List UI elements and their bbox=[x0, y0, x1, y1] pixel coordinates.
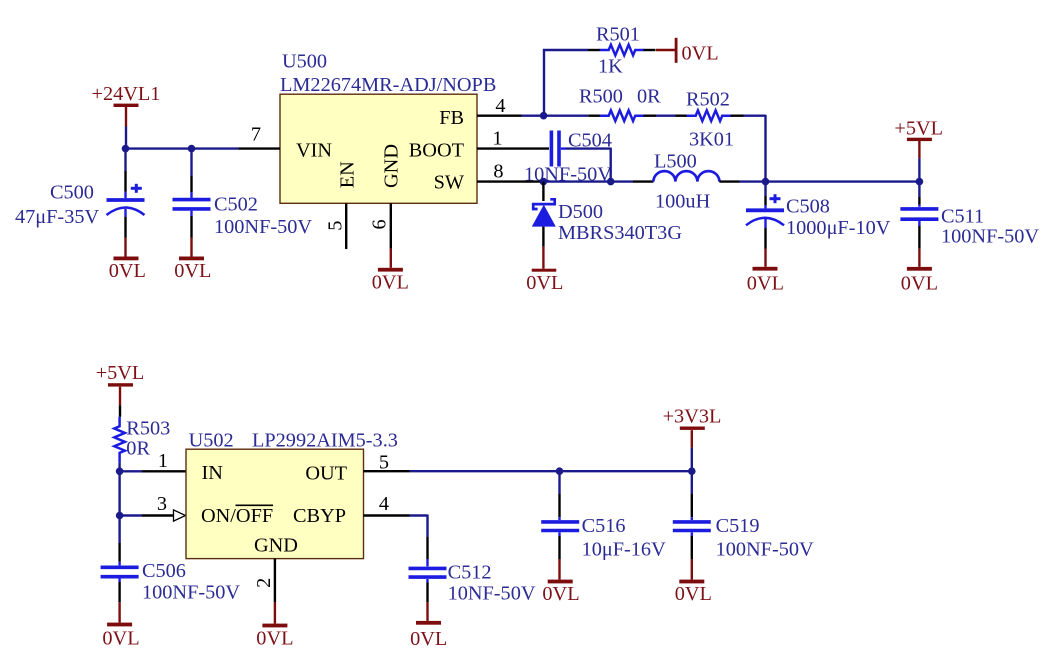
capacitor C500 47uF-35V bbox=[15, 149, 145, 238]
svg-text:C511: C511 bbox=[941, 205, 984, 227]
pin 2 GND stub bbox=[253, 559, 275, 602]
svg-text:OUT: OUT bbox=[305, 463, 347, 485]
svg-text:100uH: 100uH bbox=[655, 191, 711, 213]
svg-text:4: 4 bbox=[379, 493, 389, 515]
svg-text:VIN: VIN bbox=[296, 140, 332, 162]
capacitor C516 10uF-16V bbox=[541, 471, 666, 560]
svg-text:3: 3 bbox=[157, 493, 167, 515]
ground 0VL (C500) bbox=[109, 238, 146, 283]
svg-text:1K: 1K bbox=[598, 56, 623, 78]
svg-text:0R: 0R bbox=[126, 437, 150, 459]
wire SW to L500 bbox=[543, 180, 633, 182]
op-amp U502 LP2992AIM5-3.3 regulator box bbox=[186, 429, 398, 558]
node VIN-C500 junction bbox=[122, 145, 130, 153]
svg-text:8: 8 bbox=[493, 160, 503, 182]
svg-text:0VL: 0VL bbox=[526, 272, 563, 294]
svg-text:C506: C506 bbox=[142, 560, 186, 582]
svg-text:0VL: 0VL bbox=[901, 272, 938, 294]
svg-text:D500: D500 bbox=[558, 201, 603, 223]
svg-text:GND: GND bbox=[254, 535, 298, 557]
svg-text:SW: SW bbox=[434, 172, 465, 194]
svg-text:0VL: 0VL bbox=[256, 627, 293, 648]
pin 4 CBYP stub bbox=[364, 493, 410, 516]
svg-text:+3V3L: +3V3L bbox=[663, 406, 722, 428]
svg-text:U500: U500 bbox=[282, 51, 327, 73]
node C504-SW junction bbox=[607, 178, 615, 186]
wire C504 to SW bbox=[566, 148, 611, 182]
diode D500 MBRS340T3G bbox=[532, 182, 683, 247]
svg-text:10NF-50V: 10NF-50V bbox=[448, 582, 536, 604]
svg-text:100NF-50V: 100NF-50V bbox=[214, 216, 312, 238]
svg-text:1000μF-10V: 1000μF-10V bbox=[786, 217, 891, 239]
svg-text:100NF-50V: 100NF-50V bbox=[941, 226, 1039, 248]
svg-text:U502: U502 bbox=[189, 429, 234, 451]
svg-text:0VL: 0VL bbox=[109, 260, 146, 282]
ground 0VL (D500) bbox=[526, 246, 563, 293]
node ON/OFF junction bbox=[116, 512, 124, 520]
wire VIN rail bbox=[126, 147, 239, 149]
wire output rail bbox=[766, 180, 920, 182]
svg-text:R502: R502 bbox=[686, 89, 730, 111]
svg-text:C500: C500 bbox=[50, 181, 94, 203]
ground 0VL (U500 GND pin) bbox=[372, 249, 409, 294]
capacitor C502 100NF-50V bbox=[173, 149, 313, 238]
svg-text:0VL: 0VL bbox=[174, 260, 211, 282]
svg-text:1: 1 bbox=[492, 127, 502, 149]
node output-C508 junction bbox=[762, 178, 770, 186]
svg-text:C516: C516 bbox=[582, 515, 626, 537]
svg-text:0VL: 0VL bbox=[102, 627, 139, 648]
capacitor C512 10NF-50V bbox=[409, 537, 536, 604]
resistor R500 0R bbox=[544, 86, 662, 121]
ground 0VL (C516) bbox=[542, 559, 579, 605]
wire IN vertical bbox=[118, 471, 120, 515]
resistor R502 3K01 bbox=[676, 89, 744, 151]
ground 0VL (R501) bbox=[656, 38, 719, 65]
svg-text:FB: FB bbox=[439, 107, 464, 129]
svg-text:R503: R503 bbox=[126, 418, 170, 440]
capacitor C519 100NF-50V bbox=[673, 471, 814, 560]
svg-text:5: 5 bbox=[379, 452, 389, 474]
pin 5 OUT stub bbox=[364, 452, 410, 474]
wire L500 to output node bbox=[740, 180, 766, 182]
pin 8 SW stub bbox=[477, 160, 543, 182]
ground 0VL (C519) bbox=[675, 559, 712, 605]
svg-text:4: 4 bbox=[495, 95, 505, 117]
resistor R503 0R bbox=[114, 417, 170, 472]
svg-text:EN: EN bbox=[336, 161, 358, 188]
pin 6 GND stub bbox=[369, 203, 391, 248]
svg-text:+5VL: +5VL bbox=[894, 118, 943, 140]
svg-text:R500: R500 bbox=[579, 86, 623, 108]
pin 5 EN stub bbox=[325, 203, 347, 249]
node output-+5VL junction bbox=[916, 178, 924, 186]
power +5VL (bottom) bbox=[96, 362, 145, 417]
wire CBYP to C512 bbox=[410, 515, 428, 538]
wire FB net bbox=[522, 49, 589, 117]
svg-text:100NF-50V: 100NF-50V bbox=[716, 538, 814, 560]
op-amp U500 LM22674MR-ADJ/NOPB regulator box bbox=[280, 51, 496, 204]
svg-text:100NF-50V: 100NF-50V bbox=[142, 582, 240, 604]
svg-text:BOOT: BOOT bbox=[409, 140, 465, 162]
ground 0VL (C506) bbox=[102, 602, 139, 649]
wire R502 to output node bbox=[744, 115, 766, 182]
svg-text:6: 6 bbox=[369, 219, 391, 229]
svg-text:LP2992AIM5-3.3: LP2992AIM5-3.3 bbox=[252, 430, 398, 452]
svg-text:R501: R501 bbox=[596, 24, 640, 46]
ground 0VL (C512) bbox=[410, 602, 447, 650]
svg-text:L500: L500 bbox=[654, 151, 697, 173]
node OUT-C516 junction bbox=[556, 467, 564, 475]
resistor R501 1K bbox=[588, 24, 656, 78]
pin 7 VIN stub bbox=[238, 124, 280, 149]
node FB junction bbox=[540, 112, 548, 120]
ground 0VL (C502) bbox=[174, 238, 211, 283]
svg-text:0VL: 0VL bbox=[410, 628, 447, 648]
wire OUT rail bbox=[410, 470, 692, 472]
svg-text:0VL: 0VL bbox=[682, 43, 719, 65]
node IN junction bbox=[116, 468, 124, 476]
svg-text:47μF-35V: 47μF-35V bbox=[15, 206, 99, 228]
svg-text:0VL: 0VL bbox=[542, 583, 579, 605]
pin 4 FB stub bbox=[477, 95, 522, 117]
power +24VL1 bbox=[92, 83, 161, 149]
svg-text:10μF-16V: 10μF-16V bbox=[582, 538, 666, 560]
capacitor C506 100NF-50V bbox=[101, 516, 241, 604]
svg-text:C519: C519 bbox=[716, 515, 760, 537]
svg-text:+24VL1: +24VL1 bbox=[92, 83, 161, 105]
svg-text:C508: C508 bbox=[786, 195, 830, 217]
svg-text:CBYP: CBYP bbox=[293, 505, 346, 527]
svg-text:7: 7 bbox=[251, 124, 261, 146]
wire R500-R502 bbox=[656, 114, 676, 116]
inductor L500 100uH bbox=[633, 151, 740, 213]
capacitor C508 1000uF-10V bbox=[746, 182, 891, 249]
svg-text:0VL: 0VL bbox=[372, 272, 409, 294]
node VIN-C502 junction bbox=[188, 145, 196, 153]
svg-text:3K01: 3K01 bbox=[689, 129, 734, 151]
svg-text:0VL: 0VL bbox=[747, 272, 784, 294]
node SW-D500 junction bbox=[540, 178, 548, 186]
capacitor C504 10NF-50V bbox=[524, 130, 612, 186]
svg-text:C512: C512 bbox=[448, 561, 492, 583]
node OUT-+3V3L junction bbox=[688, 467, 696, 475]
ground 0VL (C511) bbox=[901, 249, 938, 295]
pin 1 BOOT stub bbox=[477, 127, 549, 149]
ground 0VL (U502 GND pin) bbox=[256, 602, 293, 649]
power +5VL (top) bbox=[894, 118, 943, 182]
svg-text:2: 2 bbox=[253, 578, 275, 588]
svg-text:ON/OFF: ON/OFF bbox=[201, 505, 273, 527]
svg-text:5: 5 bbox=[325, 221, 347, 231]
svg-text:0R: 0R bbox=[637, 86, 661, 108]
svg-text:GND: GND bbox=[381, 144, 403, 188]
svg-text:LM22674MR-ADJ/NOPB: LM22674MR-ADJ/NOPB bbox=[280, 74, 496, 96]
svg-text:C502: C502 bbox=[214, 193, 258, 215]
pin 1 IN stub bbox=[120, 450, 186, 472]
ground 0VL (C508) bbox=[747, 249, 784, 295]
pin 3 ON/OFF stub with input arrow bbox=[120, 493, 186, 521]
svg-text:IN: IN bbox=[202, 462, 224, 484]
power +3V3L bbox=[663, 406, 722, 472]
svg-text:+5VL: +5VL bbox=[96, 362, 145, 384]
capacitor C511 100NF-50V bbox=[900, 182, 1039, 249]
svg-text:1: 1 bbox=[158, 450, 168, 472]
svg-text:0VL: 0VL bbox=[675, 583, 712, 605]
svg-text:MBRS340T3G: MBRS340T3G bbox=[558, 222, 682, 244]
